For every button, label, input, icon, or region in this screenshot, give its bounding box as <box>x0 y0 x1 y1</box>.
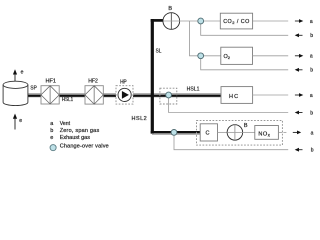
change-over valve V4 <box>171 130 177 136</box>
svg-text:NOx: NOx <box>258 131 270 137</box>
heated line HSL2 bottom corner to converter C <box>151 132 201 134</box>
svg-text:HF2: HF2 <box>88 78 98 84</box>
heated valve dashed enclosure <box>160 88 177 104</box>
svg-text:SL: SL <box>156 49 162 55</box>
wire valve4 drop to span line b4 <box>174 132 288 149</box>
pump HP <box>118 88 131 101</box>
wire C to pump B2 <box>218 131 228 133</box>
svg-text:b: b <box>311 148 314 154</box>
svg-text:a: a <box>50 121 54 127</box>
arrow b2 <box>295 68 303 72</box>
analyzer NOx <box>255 126 279 140</box>
svg-text:e: e <box>19 118 22 124</box>
svg-text:SP: SP <box>30 86 37 92</box>
svg-text:a: a <box>310 54 313 60</box>
svg-text:HP: HP <box>120 80 127 86</box>
change-over valve V3 <box>166 92 172 98</box>
svg-text:B: B <box>168 6 172 12</box>
arrow b3 <box>295 111 303 115</box>
wire thick SL top corner to blower <box>151 19 164 22</box>
wire branch down to O2 analyzer <box>190 21 221 56</box>
arrow a1 (vent out) <box>295 19 303 23</box>
svg-text:HSL2: HSL2 <box>132 116 147 122</box>
wire valve1 drop to span line b1 <box>201 21 289 35</box>
svg-text:e: e <box>50 135 53 141</box>
arrow b4 <box>295 148 303 152</box>
converter C <box>200 124 217 141</box>
sample probe SP cylinder <box>3 81 28 105</box>
svg-text:Zero, span gas: Zero, span gas <box>60 128 100 134</box>
svg-text:CO2 / CO: CO2 / CO <box>223 19 249 25</box>
svg-text:O2: O2 <box>224 54 231 60</box>
wire O2 analyzer to vent a2 <box>253 55 289 57</box>
svg-text:Vent: Vent <box>60 121 71 127</box>
wire NOx analyzer to enclosure edge <box>278 131 282 133</box>
pump HP dashed enclosure <box>116 86 133 104</box>
svg-text:b: b <box>310 68 313 74</box>
svg-text:HC: HC <box>229 94 239 100</box>
arrow a4 <box>293 131 301 135</box>
svg-text:Exhaust gas: Exhaust gas <box>60 135 91 141</box>
arrow a2 <box>295 54 303 58</box>
wire pump B2 to NOx analyzer <box>243 131 255 133</box>
change-over valve V1 <box>198 18 204 24</box>
NOx system dashed enclosure <box>197 120 283 145</box>
analyzer CO2/CO <box>220 13 252 29</box>
filter HF1 <box>41 86 59 104</box>
heated line SL vertical (junction to blower B) <box>151 19 154 134</box>
heated sample line HSL1 (probe to HC analyzer), double-line rail <box>28 93 221 97</box>
svg-text:a: a <box>310 19 313 25</box>
svg-text:HSL1: HSL1 <box>62 97 73 103</box>
svg-text:HF1: HF1 <box>46 78 57 84</box>
wire stub outside enclosure <box>283 131 286 133</box>
wire blower B to CO2/CO analyzer <box>163 20 288 22</box>
svg-text:a: a <box>310 93 313 99</box>
analyzer O2 <box>221 47 253 64</box>
legend change-over valve symbol <box>50 145 56 151</box>
svg-text:a: a <box>311 130 314 136</box>
svg-text:HSL1: HSL1 <box>187 87 200 93</box>
vent arrow e above probe <box>13 69 17 81</box>
analyzer HC <box>221 87 253 104</box>
svg-text:B: B <box>244 123 248 129</box>
pump B2 (in NOx system) <box>227 125 243 141</box>
change-over valve V2 <box>198 53 204 59</box>
svg-text:b: b <box>310 33 313 39</box>
wire valve2 drop to span line b2 <box>201 56 289 70</box>
svg-text:Change-over valve: Change-over valve <box>60 144 109 150</box>
svg-text:b: b <box>310 110 313 116</box>
wire HC analyzer to vent a3 <box>253 94 289 96</box>
exhaust gas arrow e below probe <box>13 114 17 130</box>
arrow a3 <box>295 93 303 97</box>
blower B <box>163 13 180 30</box>
svg-text:e: e <box>21 70 24 76</box>
svg-text:C: C <box>206 131 210 137</box>
filter HF2 <box>85 86 103 104</box>
wire valve3 drop to span line b3 <box>169 95 289 113</box>
svg-text:b: b <box>50 128 53 134</box>
arrow b1 (zero/span in) <box>295 33 303 37</box>
